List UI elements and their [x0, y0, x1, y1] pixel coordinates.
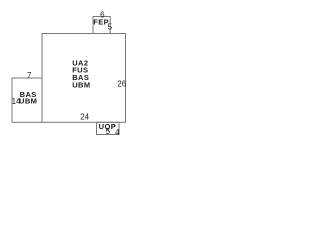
svg-text:26: 26: [117, 80, 126, 89]
svg-text:5: 5: [108, 23, 113, 32]
building section UQP (bottom right): [97, 122, 120, 134]
svg-text:UBM: UBM: [72, 80, 90, 89]
svg-text:24: 24: [80, 112, 89, 121]
building section FEP (top porch): [93, 17, 110, 34]
building section main (UA2/FUS/BAS/UBM): [42, 34, 126, 123]
svg-text:4: 4: [115, 128, 120, 137]
svg-text:7: 7: [27, 71, 32, 80]
svg-text:14: 14: [12, 97, 21, 106]
svg-text:5: 5: [106, 127, 111, 136]
svg-text:UBM: UBM: [19, 97, 37, 106]
svg-text:6: 6: [100, 10, 105, 19]
building section left (BAS/UBM wing): [12, 78, 42, 122]
